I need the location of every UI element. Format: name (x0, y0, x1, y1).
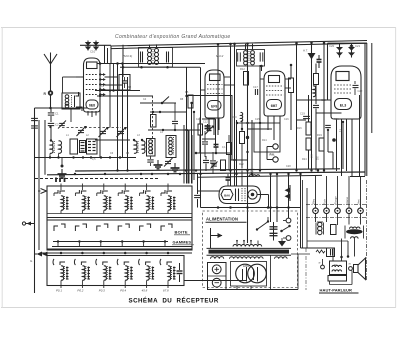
svg-text:250: 250 (318, 155, 320, 160)
padding trimmer block (80, 141, 86, 153)
svg-text:C22: C22 (358, 89, 363, 93)
top band junction dots (116, 62, 119, 65)
svg-text:BA6: BA6 (224, 194, 230, 198)
wires to terminals (315, 176, 317, 208)
alim ground arrow (281, 238, 283, 241)
svg-text:C2: C2 (55, 123, 59, 127)
main bus line 2 (47, 172, 365, 175)
bank top left arrow (41, 189, 47, 194)
page edge right (395, 28, 397, 308)
main bus line 3 (198, 175, 322, 177)
wire vertical 45 (44, 120, 46, 175)
detector loop box (254, 123, 280, 152)
svg-text:Noir: Noir (323, 199, 327, 204)
svg-text:C1: C1 (55, 112, 59, 116)
ground under osc (61, 165, 64, 168)
resistor R13 (240, 132, 245, 144)
tube V5 envelope (219, 186, 261, 204)
wire vertical v3a (251, 120, 253, 174)
svg-text:H.T.: H.T. (303, 49, 308, 53)
speaker terminal right (349, 267, 353, 271)
svg-text:GAMMES: GAMMES (173, 240, 192, 245)
svg-text:BOITE: BOITE (175, 230, 188, 235)
coil unit T6 (161, 190, 165, 193)
speaker bottom loop (329, 281, 331, 285)
wire hp top (301, 247, 334, 249)
tube V4 label EL3 (335, 99, 352, 110)
svg-text:C16: C16 (284, 118, 289, 121)
alim bus dots (217, 206, 220, 209)
svg-text:R10: R10 (232, 116, 237, 119)
top border rule (111, 41, 367, 47)
coil unit T5 (140, 190, 144, 193)
trimmer on left coil (59, 122, 65, 124)
svg-text:SCHÉMA DU RÉCEPTEUR: SCHÉMA DU RÉCEPTEUR (129, 297, 219, 305)
tube V1 left stub (76, 76, 84, 78)
wire box osc link (62, 77, 64, 93)
wire top row to V2 (97, 63, 205, 65)
tube V4 grids (334, 84, 351, 86)
resistor R11 (198, 124, 203, 135)
coil unit T1 (54, 190, 58, 193)
tuning gang dashed link (62, 127, 121, 129)
ground g2 (174, 163, 176, 168)
switch contact S2 (75, 226, 79, 231)
capacitor C7 (172, 120, 178, 122)
chassis dash-dot bottom (306, 217, 367, 219)
wire mesh horizontals mixer (95, 90, 140, 92)
speaker wires down (332, 248, 334, 261)
oscillator coil box (62, 93, 80, 109)
mains arrow (211, 235, 223, 237)
wire MF1 bottom (120, 66, 200, 68)
capacitor on left border (31, 117, 38, 119)
svg-text:C17: C17 (253, 85, 258, 89)
grid leak bracket (76, 107, 82, 111)
resistor R7 with coil (166, 136, 176, 158)
svg-text:C21: C21 (355, 44, 361, 48)
wire y189 link detector (198, 190, 220, 192)
bus junction dots (49, 156, 51, 158)
hp dashdot right edge (366, 180, 368, 281)
switch contact S5 (140, 226, 144, 231)
dark ticks (55, 178, 57, 183)
wire vertical v3r (296, 44, 298, 171)
svg-text:R19: R19 (317, 133, 322, 137)
transformer frame (344, 226, 346, 239)
tube V2 grids (207, 84, 223, 86)
top right box (327, 43, 329, 100)
terminal chassis 2 (324, 208, 330, 214)
tube V3 label 6M7 (267, 100, 282, 110)
transformer core (209, 250, 290, 254)
tube V1 pins (87, 111, 89, 116)
capacitor C13 dark (214, 144, 219, 146)
left border (34, 108, 36, 293)
MF1 stubs to rule (149, 45, 151, 48)
transformer primary coil (233, 244, 262, 246)
svg-text:P0.4: P0.4 (120, 289, 126, 293)
wire vertical det (236, 171, 238, 187)
alim dashed enclosure (203, 211, 298, 288)
speaker input resistor (316, 250, 325, 253)
rectifier tube 1883 (231, 262, 267, 287)
output transformer core (346, 229, 362, 234)
svg-text:L4: L4 (160, 131, 163, 134)
svg-text:G: G (30, 259, 33, 263)
wire bank feeds (60, 184, 62, 192)
svg-text:EF9: EF9 (211, 104, 217, 108)
resistor R9 (227, 143, 232, 155)
svg-text:R16: R16 (297, 127, 302, 130)
svg-text:6M7: 6M7 (271, 104, 278, 108)
svg-text:P.U.: P.U. (270, 153, 276, 157)
secondary coil mid (230, 257, 264, 259)
capacitor C14b (205, 156, 207, 160)
tube V5 plate circle (248, 190, 257, 199)
wire y123 extend (237, 122, 252, 124)
tube V5 grid (241, 188, 243, 202)
wire vertical v1b (122, 64, 124, 158)
wire vertical misc3 (288, 174, 290, 218)
tube V3 anode box (269, 76, 280, 83)
tube V2 anode box (210, 74, 221, 81)
cathode loop (202, 118, 216, 120)
tube V3 grids (266, 85, 284, 87)
svg-text:0,5: 0,5 (92, 158, 96, 161)
HT feed arrow (311, 43, 313, 63)
mixer caps C12 (207, 124, 209, 131)
resistor R6 (151, 115, 157, 128)
svg-text:Ch: Ch (250, 170, 254, 174)
tube V1 6E8 envelope (84, 58, 101, 112)
ground g1 (157, 160, 159, 165)
secondary coil left (211, 257, 224, 259)
capacitor C17 (254, 89, 256, 95)
bottom coil bank box (47, 256, 184, 286)
svg-text:EL3: EL3 (340, 104, 347, 108)
junction diamond (246, 136, 249, 139)
svg-text:Jaune: Jaune (345, 196, 349, 204)
svg-text:6E8: 6E8 (89, 104, 95, 108)
bank terminal stubs (60, 286, 62, 289)
capacitor C19 (303, 115, 310, 117)
capacitor C2 (48, 122, 54, 124)
resistor R23 (221, 160, 226, 171)
cap C24 (325, 124, 331, 126)
speaker terminal left (321, 265, 325, 269)
trimmer C6 (165, 160, 171, 162)
capacitor C14 (210, 160, 216, 162)
osc trimmer block (87, 139, 98, 154)
tube V5 hexagon label (221, 190, 233, 200)
svg-text:Rouge: Rouge (334, 196, 338, 204)
switch SW2 (282, 227, 290, 232)
svg-text:C6: C6 (110, 152, 114, 155)
alim bottom wires (208, 289, 298, 291)
svg-text:C4: C4 (143, 98, 147, 101)
wire vertical misc2 (276, 174, 278, 222)
page edge left (1, 28, 3, 308)
meter box (208, 263, 227, 290)
svg-text:P0.3: P0.3 (99, 289, 105, 293)
wire vertical v2r (230, 45, 232, 186)
svg-text:C12: C12 (203, 120, 208, 124)
svg-text:L2: L2 (86, 134, 89, 137)
coil unit B2 (74, 259, 75, 265)
capacitor C5 (150, 156, 152, 159)
resistor R15 (289, 78, 294, 93)
page edge top (1, 27, 396, 29)
wire vertical v3l (259, 65, 261, 171)
wire vertical r3 (323, 43, 325, 171)
tube V5 plate wire (257, 194, 268, 196)
wire vertical v1a (117, 64, 119, 171)
wire v3 stubs (260, 78, 264, 80)
choke coil (249, 175, 260, 177)
capacitor C18 (318, 55, 320, 59)
coil unit T2 (75, 190, 79, 193)
tube V2 label EF9 (208, 101, 222, 111)
svg-text:ALIMENTATION: ALIMENTATION (206, 217, 238, 222)
PU pickup terminals (273, 144, 278, 149)
decoupling box Ca (119, 75, 130, 91)
wire row mid right (297, 99, 332, 101)
switch contact S1 (54, 226, 58, 231)
coil unit B3 (96, 259, 97, 265)
svg-text:P0.2: P0.2 (77, 289, 83, 293)
terminal chassis 3 (335, 208, 341, 214)
switch contact S4 (118, 226, 122, 231)
wire antenna coil drop (50, 129, 52, 141)
tube V2 pins (208, 118, 210, 130)
wire MF2 to V3 (261, 66, 263, 71)
resistor R19 (319, 138, 324, 151)
trimmer CV1 (78, 129, 84, 131)
trimmer CV2 (100, 130, 106, 132)
wire vertical det2 (241, 171, 243, 187)
wire v2 stubs (224, 76, 231, 78)
field winding box (328, 276, 347, 282)
tube V4 anode box (336, 72, 349, 81)
svg-text:HAUT-PARLEUR: HAUT-PARLEUR (320, 287, 352, 292)
switch bus (53, 241, 168, 243)
tube V5 cathode bars (235, 189, 237, 202)
svg-text:L1: L1 (66, 134, 69, 137)
svg-text:67.8: 67.8 (163, 289, 169, 293)
dark junction (332, 138, 336, 142)
main bus line 1 (75, 169, 340, 171)
wire y160 (231, 159, 248, 161)
svg-text:C19: C19 (300, 112, 305, 116)
trimmer with arrow V2 (207, 127, 212, 129)
antenna coils L1 L2 (50, 141, 53, 154)
tube V4 pins (336, 119, 338, 171)
svg-text:Vert: Vert (357, 199, 361, 204)
right mid verticals (327, 130, 329, 152)
wire vertical misc1 (270, 174, 272, 222)
trimmer C15b (211, 163, 217, 165)
chassis dash-dot top (306, 204, 367, 206)
svg-text:R14: R14 (262, 139, 267, 142)
svg-text:C10: C10 (90, 50, 96, 54)
wire vertical v2l (200, 67, 202, 174)
coil unit B6 (160, 259, 161, 265)
svg-text:45.8: 45.8 (142, 289, 148, 293)
output transformer coil bottom (351, 237, 359, 239)
tube V1 label 6E8 (86, 100, 98, 109)
svg-text:C23: C23 (321, 99, 326, 102)
band switch box (47, 186, 192, 250)
terminal chassis 4 (346, 208, 352, 214)
antenna (50, 64, 52, 108)
speaker cone (358, 258, 366, 280)
page edge bottom (1, 307, 396, 309)
voice coil box (330, 261, 347, 275)
resistor R5 (188, 95, 193, 108)
bank top bus (42, 252, 192, 254)
wire vertical 232 (231, 95, 233, 160)
output transformer coil top (350, 227, 361, 229)
bus line osc (35, 157, 136, 159)
wire vertical 110 extend (109, 64, 111, 91)
wire vertical r2 (311, 43, 313, 171)
switch contact S3 (97, 226, 101, 231)
wire y153 (196, 152, 231, 154)
coil unit T3 (97, 190, 101, 193)
wire drop bundle (183, 133, 185, 184)
capacitor C27 (197, 174, 199, 194)
capacitor C1 (50, 108, 52, 112)
wire MF2 verticals (217, 44, 219, 135)
svg-text:av: av (349, 264, 352, 266)
svg-text:R20: R20 (334, 118, 339, 121)
field coil (317, 221, 323, 223)
svg-text:C15: C15 (255, 118, 260, 121)
capacitor C30 (179, 263, 181, 270)
capacitor C13 (202, 141, 208, 143)
svg-text:R12: R12 (240, 67, 245, 71)
svg-text:C20: C20 (329, 44, 335, 48)
svg-text:R22: R22 (239, 163, 244, 166)
MF2 stubs (245, 44, 247, 50)
tube V3 pins (267, 116, 269, 130)
terminal chassis 5 (358, 208, 364, 214)
alim top bus (201, 207, 301, 209)
switch contact S6 (161, 226, 165, 231)
terminal chassis 1 (313, 208, 319, 214)
svg-text:L3: L3 (137, 134, 140, 137)
svg-text:R: R (44, 92, 47, 96)
svg-text:(M.F.1): (M.F.1) (123, 54, 132, 58)
svg-text:Combinateur d'exposition Grand: Combinateur d'exposition Grand Automatiq… (115, 34, 231, 40)
coil unit B5 (139, 259, 140, 265)
svg-text:R8: R8 (180, 98, 184, 101)
alim terminal A (286, 218, 291, 223)
tube V1 grids (86, 74, 98, 76)
alim terminal B (286, 236, 291, 241)
gang dashed vertical (152, 96, 154, 156)
resistor R12 (244, 72, 249, 86)
resistor R1 (70, 139, 78, 154)
filter capacitor stack (273, 222, 275, 241)
capacitor C22 (354, 81, 356, 84)
capacitor C23 (313, 104, 319, 106)
wire vertical 236.5 extend (236, 120, 238, 171)
svg-text:P0.1: P0.1 (56, 289, 62, 293)
wire vertical v1c (127, 77, 129, 171)
resistor chain right (314, 74, 319, 85)
svg-text:0,1: 0,1 (222, 146, 226, 149)
coil unit T4 (118, 190, 122, 193)
terminal G arrows (37, 252, 43, 257)
wire corner into frame (110, 46, 112, 64)
svg-text:R3: R3 (126, 152, 130, 155)
coil unit B1 (53, 259, 54, 265)
right border (364, 43, 366, 176)
wire bank to alim (184, 280, 247, 282)
svg-text:Bleu: Bleu (312, 198, 316, 204)
switch SW1 (257, 222, 268, 230)
screen bus wire (187, 95, 233, 97)
V1 stub arrowheads (103, 73, 106, 76)
coils L3 L4 (134, 141, 137, 154)
svg-text:C28: C28 (286, 165, 291, 168)
wire vertical long B (247, 44, 249, 243)
secondary coil right (275, 257, 288, 259)
svg-text:ar: ar (319, 262, 321, 265)
switch lever (162, 97, 169, 104)
capacitor C10 pair (80, 44, 111, 46)
hp dash-dot border (305, 248, 307, 290)
coil choke right (313, 86, 316, 97)
electrolytic chevrons (285, 188, 291, 194)
wire grid row (105, 76, 118, 78)
tube V3 6M7 envelope (264, 71, 285, 116)
resistor R4 with coil (147, 139, 156, 157)
wire mesh verticals mixer (99, 64, 101, 158)
antenna input arrow (26, 223, 36, 225)
svg-text:M.F.2: M.F.2 (216, 54, 224, 58)
bundle verticals left of V2 (183, 125, 185, 133)
resistor R25 (331, 225, 337, 235)
tube V2 EF9 envelope (205, 70, 224, 118)
svg-text:R24: R24 (302, 158, 307, 161)
bus dashed 3 (35, 178, 160, 180)
wire antenna bus (35, 107, 89, 109)
resistor R17 (308, 95, 310, 122)
svg-text:C3: C3 (101, 85, 105, 88)
speaker magnet (354, 265, 359, 273)
junction dots pass2 (99, 89, 101, 91)
capacitor C26 (227, 174, 229, 177)
tube V4 EL3 envelope (331, 66, 361, 119)
tube V1 anode box (87, 62, 98, 69)
antenna terminal R (48, 90, 53, 95)
coil on R13 line (241, 112, 243, 121)
trimmer CV3 (118, 130, 124, 132)
coil unit B4 (117, 259, 118, 265)
